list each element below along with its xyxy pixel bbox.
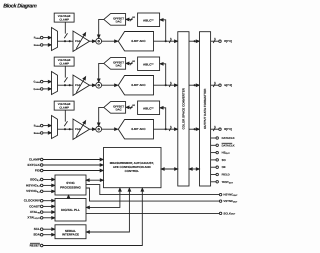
junction dot clamp switch channel 3 (64, 128, 66, 130)
svg-text:FID: FID (35, 168, 41, 172)
input pin COAST (29, 204, 43, 208)
summing node channel 2 (96, 82, 102, 88)
input mux channel 2 (52, 72, 58, 95)
output bus R[7:0] (211, 37, 232, 43)
8-bit ADC channel 1 (118, 32, 153, 51)
svg-text:DATACLK: DATACLK (222, 136, 235, 140)
input pin EXTCLK (28, 163, 43, 167)
svg-text:GAIN0: GAIN0 (34, 81, 40, 84)
svg-text:EXTCLK: EXTCLK (28, 163, 41, 167)
wire CSC to formatter channel 1 (189, 40, 199, 43)
wire control to color space converter (161, 168, 178, 170)
input pin SOG0,1 (30, 177, 43, 181)
wire ABLC to offset DAC channel 2 bus 10 (126, 60, 136, 65)
output bus G[7:0] (211, 81, 232, 87)
wire CLOCKINV to digital PLL (43, 199, 55, 202)
input pin SDA (33, 233, 43, 237)
input pin RESET (30, 243, 43, 247)
input pin XTALIN (30, 210, 43, 214)
input pin FID (35, 168, 43, 172)
wire ADC feedback to ABLC channel 2 (160, 63, 166, 86)
input pin CLOCKINV (24, 199, 43, 203)
wire PGA to summer channel 1 (90, 40, 96, 43)
input pin GAIN0 (34, 80, 43, 84)
wire EXTCLK to control block (43, 164, 103, 166)
junction dot ADC output channel 1 (165, 40, 167, 42)
svg-text:RAIN0: RAIN0 (34, 37, 40, 40)
svg-text:GAIN1: GAIN1 (34, 88, 40, 91)
voltage clamp block channel 2 (54, 57, 74, 66)
output pin FIELD (211, 173, 230, 177)
svg-text:CLAMP: CLAMP (29, 157, 40, 161)
wire ADC output bus channel 1 (154, 37, 178, 43)
wire ADC feedback to ABLC channel 3 (160, 107, 166, 130)
svg-text:PROCESSING: PROCESSING (60, 185, 81, 189)
wire offset DAC to summer channel 2 (98, 63, 104, 82)
wire mux output channel 3 (58, 128, 74, 130)
wire XTALIN to digital PLL (43, 211, 55, 214)
wire CSC to formatter channel 2 (189, 84, 199, 87)
svg-text:RAIN1: RAIN1 (34, 44, 40, 47)
wire sync processing to digital PLL (67, 195, 70, 199)
wire ABLC to offset DAC channel 3 bus 10 (126, 104, 136, 109)
svg-text:8-BIT ADC: 8-BIT ADC (131, 39, 146, 43)
wire RAIN1 to mux (43, 44, 51, 47)
svg-text:8-BIT ADC: 8-BIT ADC (131, 127, 146, 131)
input pin RAIN0 (34, 36, 43, 40)
wire RESET to control block (43, 188, 144, 245)
wire CLAMP to control block (43, 158, 103, 161)
svg-text:OE: OE (222, 165, 226, 169)
svg-text:CLAMP: CLAMP (59, 106, 69, 109)
output pin DATACLK (inverted) (211, 143, 235, 147)
svg-text:B[7:0]: B[7:0] (224, 128, 232, 131)
serial interface block (55, 225, 86, 239)
voltage clamp block channel 3 (54, 101, 74, 110)
output pin SO (211, 158, 227, 162)
junction dot ADC output channel 3 (165, 128, 167, 130)
clamp switch channel 1 (64, 33, 67, 38)
wire SCLK out (86, 211, 236, 215)
wire PGA to summer channel 2 (90, 84, 96, 87)
input pin HSYNC0,1 (26, 183, 43, 187)
svg-text:RESET: RESET (30, 243, 40, 247)
wire XTALOUT to digital PLL (43, 217, 55, 220)
8-bit ADC channel 2 (118, 76, 153, 95)
svg-text:R[7:0]: R[7:0] (224, 40, 232, 43)
svg-text:DAC: DAC (116, 20, 122, 24)
wire RAIN0 to mux (43, 36, 51, 39)
output pin DATACLK (211, 136, 235, 140)
wire GAIN0 to mux (43, 80, 51, 83)
ABLC block channel 2 (138, 57, 160, 71)
wire VSYNC out (86, 188, 238, 203)
wire FID to control block (43, 169, 103, 172)
wire GAIN1 to mux (43, 88, 51, 91)
input pin SCL (34, 227, 43, 231)
offset DAC channel 2 (104, 58, 126, 70)
input pin XTALOUT (27, 216, 43, 220)
wire voltage clamp to switch channel 3 (64, 110, 66, 122)
ABLC block channel 3 (138, 101, 160, 115)
input pin CLAMP (29, 157, 43, 161)
wire ADC feedback to ABLC channel 1 (160, 19, 166, 42)
wire CSC to formatter channel 3 (189, 128, 199, 130)
ABLC block channel 1 (138, 13, 160, 27)
junction dot ADC output channel 2 (165, 84, 167, 86)
svg-text:COAST: COAST (29, 204, 40, 208)
junction dot switch blade channel 3 (69, 128, 71, 130)
input mux channel 1 (52, 28, 58, 51)
svg-text:COLOR SPACE CONVERTER: COLOR SPACE CONVERTER (182, 87, 186, 129)
svg-text:DAC: DAC (116, 64, 122, 68)
offset DAC channel 1 (104, 14, 126, 26)
wire VSYNC0,1 to sync processing (43, 190, 55, 193)
offset DAC channel 3 (104, 102, 126, 114)
wire PGA to summer channel 3 (90, 128, 96, 130)
input mux channel 3 (52, 116, 58, 139)
svg-text:FIELD: FIELD (222, 173, 230, 177)
junction dot switch blade channel 2 (69, 84, 71, 86)
svg-text:BAIN0: BAIN0 (34, 125, 40, 128)
PGA amplifier channel 2 (73, 75, 90, 95)
wire ADC output bus channel 3 (154, 125, 178, 131)
wire HSYNC out (86, 185, 238, 197)
svg-text:CLAMP: CLAMP (59, 62, 69, 65)
measurement autoadjust AFE configuration and control block (104, 148, 162, 188)
svg-text:CLAMP: CLAMP (59, 18, 69, 21)
PGA amplifier channel 1 (73, 31, 90, 51)
voltage clamp block channel 1 (54, 13, 74, 22)
input pin VSYNC0,1 (26, 189, 43, 193)
svg-text:G[7:0]: G[7:0] (224, 84, 232, 87)
output pin TEST_OUT (211, 180, 234, 185)
svg-text:SDA: SDA (33, 233, 40, 237)
wire digital PLL to control (86, 188, 121, 209)
input pin GAIN1 (34, 88, 43, 92)
wire mux output channel 2 (58, 84, 74, 86)
wire SDA to serial interface (43, 233, 55, 236)
PGA amplifier channel 3 (73, 119, 90, 139)
wire SOG0,1 to sync processing (43, 178, 55, 181)
output pin HS_OUT (211, 151, 231, 156)
wire BAIN1 to mux (43, 132, 51, 135)
wire ABLC to offset DAC channel 1 bus 10 (126, 16, 136, 21)
svg-text:OUTPUT DATA FORMATTER: OUTPUT DATA FORMATTER (203, 88, 207, 129)
input pin BAIN0 (34, 124, 43, 128)
wire summer to ADC channel 1 (102, 40, 118, 43)
wire mux output channel 1 (58, 40, 74, 42)
output pin OE (211, 165, 226, 169)
output data formatter block (200, 32, 211, 186)
clamp switch channel 3 (64, 121, 67, 126)
input pin RAIN1 (34, 44, 43, 48)
svg-text:Block Diagram: Block Diagram (3, 4, 37, 10)
svg-text:SCL: SCL (34, 227, 40, 231)
junction dot clamp switch channel 1 (64, 40, 66, 42)
svg-text:CLOCKINV: CLOCKINV (24, 199, 41, 203)
clamp switch channel 2 (64, 77, 67, 82)
junction dot clamp switch channel 2 (64, 84, 66, 86)
input pin BAIN1 (34, 132, 43, 136)
wire BAIN0 to mux (43, 124, 51, 127)
svg-text:DATACLK: DATACLK (222, 143, 235, 147)
digital PLL block (55, 199, 86, 222)
wire offset DAC to summer channel 1 (98, 19, 104, 38)
wire HSYNC0,1 to sync processing (43, 184, 55, 187)
svg-text:DIGITAL PLL: DIGITAL PLL (61, 208, 80, 212)
summing node channel 3 (96, 126, 102, 132)
svg-text:8-BIT ADC: 8-BIT ADC (131, 83, 146, 87)
wire ADC output bus channel 2 (154, 81, 178, 87)
wire serial interface to control (86, 188, 130, 233)
sync processing block (55, 175, 86, 195)
wire voltage clamp to switch channel 2 (64, 66, 66, 78)
wire summer to ADC channel 2 (102, 84, 118, 87)
wire sync processing to control bidirectional (86, 179, 104, 182)
summing node channel 1 (96, 38, 102, 44)
wire voltage clamp to switch channel 1 (64, 22, 66, 33)
svg-text:DAC: DAC (116, 108, 122, 112)
wire summer to ADC channel 3 (102, 128, 118, 130)
8-bit ADC channel 3 (118, 120, 153, 139)
output bus B[7:0] (211, 125, 232, 131)
wire COAST to digital PLL (43, 205, 55, 208)
color space converter block (178, 32, 189, 186)
svg-text:INTERFACE: INTERFACE (62, 232, 79, 236)
svg-text:CONTROL: CONTROL (125, 169, 140, 173)
wire control bus CSC to formatter (189, 168, 200, 170)
svg-text:BAIN1: BAIN1 (34, 132, 40, 135)
wire SCL to serial interface (43, 228, 55, 231)
junction dot switch blade channel 1 (69, 40, 71, 42)
wire offset DAC to summer channel 3 (98, 107, 104, 126)
